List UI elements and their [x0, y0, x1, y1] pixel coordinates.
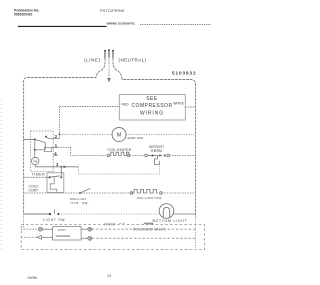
node cold control right	[60, 176, 62, 178]
wire icemaker row2 right	[81, 237, 88, 239]
timer box	[31, 131, 54, 172]
wire to icemaker row2	[41, 236, 52, 238]
node cold control left	[49, 176, 51, 178]
solenoid valve coil	[144, 223, 153, 225]
svg-text:M: M	[117, 133, 121, 139]
svg-text:COIL HEATER: COIL HEATER	[108, 148, 132, 152]
wire defrost bypass	[78, 165, 159, 174]
wire cold control feed	[24, 176, 50, 178]
timer switch arm	[35, 139, 46, 142]
interior light lamp	[159, 204, 174, 219]
wire compressor feed riser	[59, 107, 61, 139]
wire contact to terminal 2	[46, 137, 60, 139]
mullion switch arm	[80, 188, 90, 193]
svg-text:13: 13	[107, 274, 111, 278]
svg-text:(LINE): (LINE)	[84, 58, 100, 63]
node mullion switch	[79, 192, 81, 194]
wire red to compressor	[60, 106, 120, 108]
svg-text:HTR. SW.: HTR. SW.	[71, 201, 90, 205]
header rule right dotted	[140, 23, 211, 25]
svg-text:RED: RED	[122, 103, 130, 107]
wire light switch to lamp	[59, 213, 160, 215]
wire icemaker row2 left	[21, 236, 37, 238]
wire mullion heater to right rail	[161, 192, 195, 194]
terminal 4 stub	[53, 154, 58, 156]
timer cam contact	[44, 148, 51, 152]
svg-text:BOTTOM LIGHT: BOTTOM LIGHT	[153, 219, 188, 223]
svg-text:5995209410: 5995209410	[14, 12, 33, 16]
right rail lower dashed	[195, 217, 197, 248]
svg-text:TIMER: TIMER	[32, 172, 46, 176]
wire icemaker row1 left	[21, 228, 38, 230]
wire lamp to right rail	[173, 213, 195, 215]
mullion heater element	[130, 189, 162, 194]
connector plug row2 right	[88, 236, 92, 240]
svg-text:CONT: CONT	[29, 189, 39, 193]
wire timer arm drop	[44, 143, 46, 150]
svg-text:EVAP. FAN: EVAP. FAN	[128, 136, 143, 140]
svg-text:COMPRESSOR: COMPRESSOR	[131, 103, 172, 109]
header rule left	[18, 25, 107, 27]
cold control bellows	[50, 177, 57, 192]
svg-text:TM: TM	[33, 159, 38, 163]
header publication text	[14, 8, 40, 16]
wire line-hot from plug to left rail	[24, 58, 105, 214]
wire neutral from plug to right rail	[113, 58, 196, 217]
auto icemaker box	[53, 227, 82, 240]
svg-text:WIRING: WIRING	[140, 110, 164, 116]
wire defrost thermostat to right rail	[170, 155, 196, 157]
svg-text:WHITE: WHITE	[173, 102, 184, 106]
wire evap fan row right	[126, 134, 196, 136]
wire ground prong with arrow	[108, 58, 110, 78]
wire icemaker row1 right	[81, 228, 88, 230]
wire coil heater to defrost thermostat	[130, 155, 145, 157]
wire to cam	[35, 149, 45, 151]
wire evap fan row left	[60, 134, 113, 136]
svg-text:5103932: 5103932	[172, 70, 197, 75]
timer motor TM	[32, 157, 39, 164]
coil heater element	[107, 152, 130, 157]
wire timer inner vertical	[34, 139, 36, 157]
node cold control tie	[60, 166, 62, 168]
svg-text:FRT21PRHW: FRT21PRHW	[100, 9, 125, 13]
compressor box	[119, 95, 185, 121]
wire row2 to right rail	[92, 237, 196, 239]
node junction evap branch	[59, 134, 61, 136]
svg-text:09/96: 09/96	[28, 276, 37, 280]
connector pin row2 left	[37, 235, 42, 239]
svg-text:LIGHT SW.: LIGHT SW.	[43, 218, 67, 222]
evap fan motor M	[112, 128, 126, 142]
wire timer feed from left rail	[24, 138, 35, 140]
wire row1 to right rail	[92, 228, 196, 230]
wire terminal 3 row	[58, 166, 78, 168]
svg-text:WIRING SCHEMATIC: WIRING SCHEMATIC	[107, 21, 136, 25]
connector plug row1 left	[38, 227, 42, 231]
wire connector to icemaker	[42, 228, 52, 230]
svg-text:MULLION HTR: MULLION HTR	[137, 196, 162, 200]
node timer mid	[34, 149, 36, 151]
icemaker kit dashed box	[21, 225, 204, 250]
wire cam to terminal 1	[52, 146, 59, 148]
wire mullion switch row	[24, 192, 133, 194]
power plug prongs	[104, 50, 114, 58]
defrost thermostat	[145, 154, 170, 164]
light switch	[49, 213, 51, 215]
wire white compressor to right rail	[185, 106, 195, 108]
node timer feed	[34, 138, 36, 140]
left rail lower dashed	[23, 214, 25, 229]
hash marks on kit box top edge	[105, 223, 125, 226]
scan edge artifact	[1, 100, 3, 250]
wire cold control to timer row	[60, 167, 62, 178]
connector plug row1 right	[88, 227, 92, 231]
svg-text:SEE: SEE	[146, 96, 158, 102]
cold control box	[47, 173, 64, 193]
svg-text:ICEMAKER: ICEMAKER	[56, 234, 71, 238]
wire TM to terminal 3	[35, 165, 58, 167]
svg-text:(NEUTRAL): (NEUTRAL)	[119, 58, 147, 63]
svg-text:THERM.: THERM.	[150, 149, 162, 153]
svg-text:AUTO: AUTO	[58, 228, 65, 232]
node timer contact 2	[45, 136, 47, 138]
wire light switch row	[24, 213, 50, 215]
cold control switch arm	[50, 176, 60, 178]
wire terminal 1 to coil heater	[58, 147, 107, 155]
